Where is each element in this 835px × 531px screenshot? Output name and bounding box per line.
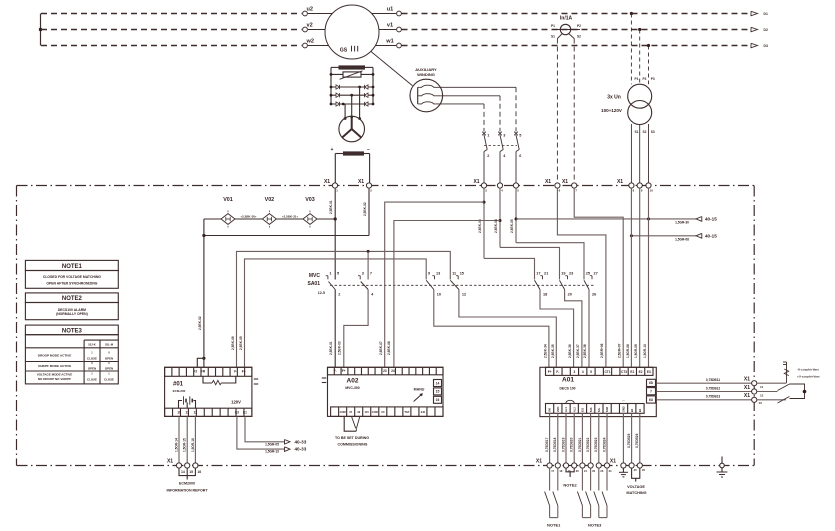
svg-text:0,75DB17: 0,75DB17 <box>545 437 549 452</box>
svg-text:2,5BK-06: 2,5BK-06 <box>231 336 235 350</box>
svg-text:MVC: MVC <box>309 273 321 279</box>
svg-text:ECM-200: ECM-200 <box>173 389 186 393</box>
svg-text:0,75DB23: 0,75DB23 <box>594 437 598 452</box>
svg-text:X1: X1 <box>545 179 551 185</box>
svg-text:VMC: VMC <box>556 406 560 412</box>
svg-text:0,75DB24: 0,75DB24 <box>602 437 606 452</box>
svg-text:X1: X1 <box>610 459 616 465</box>
svg-text:(NORMALLY OPEN): (NORMALLY OPEN) <box>56 312 88 316</box>
svg-text:3: 3 <box>574 370 576 374</box>
svg-text:2,5BK-08: 2,5BK-08 <box>387 341 391 355</box>
svg-text:X1: X1 <box>744 385 750 391</box>
svg-text:A02: A02 <box>347 378 359 385</box>
svg-text:E1: E1 <box>630 370 634 374</box>
svg-text:COM: COM <box>340 410 346 414</box>
svg-text:DROOP MODE ACTIVE: DROOP MODE ACTIVE <box>38 353 72 357</box>
svg-text:2,5BK-03: 2,5BK-03 <box>338 341 342 355</box>
svg-text:VAR/PF MODE ACTIVE: VAR/PF MODE ACTIVE <box>38 364 71 368</box>
svg-text:940: 940 <box>421 410 426 414</box>
svg-text:3: 3 <box>503 134 505 138</box>
svg-text:−: − <box>367 147 370 153</box>
svg-text:E3: E3 <box>647 370 651 374</box>
svg-text:10: 10 <box>177 411 181 415</box>
svg-text:12: 12 <box>462 292 466 296</box>
svg-text:0,75DB21: 0,75DB21 <box>578 437 582 452</box>
svg-text:1,5GR-13: 1,5GR-13 <box>265 450 279 454</box>
svg-text:2,5BK-35: 2,5BK-35 <box>551 344 555 358</box>
svg-text:F+: F+ <box>242 370 246 374</box>
svg-text:52L: 52L <box>597 407 601 412</box>
svg-text:+2,5BK-30+: +2,5BK-30+ <box>240 215 257 219</box>
svg-text:DECS 100: DECS 100 <box>559 387 575 391</box>
svg-text:1,5GR-08: 1,5GR-08 <box>626 344 630 358</box>
svg-text:12: 12 <box>194 411 198 415</box>
svg-text:2,5BK-37: 2,5BK-37 <box>576 344 580 358</box>
svg-text:S1: S1 <box>635 130 639 134</box>
svg-text:12-5: 12-5 <box>318 291 325 295</box>
svg-text:+U·cosphi+Vars: +U·cosphi+Vars <box>797 375 820 379</box>
svg-text:9: 9 <box>428 271 430 275</box>
svg-text:2,5BR+06: 2,5BR+06 <box>600 343 604 358</box>
svg-text:17: 17 <box>536 271 540 275</box>
svg-text:11: 11 <box>760 385 764 389</box>
svg-text:14: 14 <box>181 470 185 474</box>
svg-text:CLOSE: CLOSE <box>104 378 114 382</box>
svg-text:S1: S1 <box>551 35 555 39</box>
svg-text:GND: GND <box>622 406 626 412</box>
svg-text:0,75DB19: 0,75DB19 <box>561 437 565 452</box>
svg-text:F+: F+ <box>548 370 552 374</box>
svg-text:NOTE1: NOTE1 <box>547 523 561 528</box>
svg-text:2,5BR+07: 2,5BR+07 <box>618 343 622 358</box>
svg-text:FR: FR <box>201 370 206 374</box>
svg-text:E2: E2 <box>639 370 643 374</box>
svg-text:3x Un: 3x Un <box>607 95 621 101</box>
svg-text:0,75DB11: 0,75DB11 <box>706 378 720 382</box>
svg-text:11: 11 <box>452 271 456 275</box>
svg-text:X1: X1 <box>358 179 364 185</box>
svg-text:S2: S2 <box>643 130 647 134</box>
svg-text:CLOSE: CLOSE <box>87 356 97 360</box>
svg-text:27: 27 <box>594 271 598 275</box>
svg-text:AL2: AL2 <box>572 407 576 412</box>
svg-text:+: + <box>331 147 334 153</box>
svg-text:1,5GR-10: 1,5GR-10 <box>643 344 647 358</box>
svg-text:u1: u1 <box>387 7 394 13</box>
svg-text:24: 24 <box>391 369 395 373</box>
svg-text:6: 6 <box>519 154 521 158</box>
svg-text:P2: P2 <box>577 24 581 28</box>
svg-text:D2: D2 <box>764 28 768 32</box>
svg-text:1,5GR-30: 1,5GR-30 <box>675 221 689 225</box>
svg-text:v1: v1 <box>387 23 393 29</box>
svg-text:VM: VM <box>548 408 552 412</box>
svg-text:NOTE1: NOTE1 <box>62 264 83 270</box>
svg-text:OPEN: OPEN <box>88 367 96 371</box>
svg-text:F2: F2 <box>194 370 198 374</box>
svg-text:2: 2 <box>338 292 340 296</box>
svg-text:2,5BK-02: 2,5BK-02 <box>198 316 202 330</box>
svg-text:E1: E1 <box>243 411 247 415</box>
svg-text:#01: #01 <box>173 382 184 388</box>
svg-text:V03: V03 <box>305 197 315 203</box>
svg-text:40-33: 40-33 <box>295 439 307 444</box>
svg-text:P3: P3 <box>651 77 655 81</box>
svg-text:ECM2000: ECM2000 <box>179 482 195 486</box>
svg-text:1,5OR-15: 1,5OR-15 <box>183 438 187 452</box>
svg-text:u2: u2 <box>307 6 314 12</box>
svg-text:1,5GR-09: 1,5GR-09 <box>634 344 638 358</box>
svg-text:5: 5 <box>519 134 521 138</box>
svg-text:5: 5 <box>590 370 592 374</box>
svg-text:WINDING: WINDING <box>417 72 435 77</box>
svg-text:6D: 6D <box>649 381 654 385</box>
svg-text:2,5BK-38: 2,5BK-38 <box>583 344 587 358</box>
svg-text:S3: S3 <box>651 130 655 134</box>
svg-text:1,5OR-16: 1,5OR-16 <box>191 438 195 452</box>
svg-text:15: 15 <box>460 271 464 275</box>
svg-text:P1: P1 <box>551 24 555 28</box>
svg-text:2,5BK-03: 2,5BK-03 <box>478 219 482 233</box>
svg-text:52J: 52J <box>581 407 585 412</box>
svg-text:6U: 6U <box>649 398 654 402</box>
svg-text:B3: B3 <box>630 408 634 412</box>
svg-text:20: 20 <box>568 292 572 296</box>
svg-text:23: 23 <box>383 369 387 373</box>
svg-text:1: 1 <box>329 271 331 275</box>
svg-text:120V: 120V <box>231 400 241 405</box>
svg-text:4: 4 <box>582 370 584 374</box>
svg-text:B1: B1 <box>638 408 642 412</box>
svg-text:11: 11 <box>186 411 190 415</box>
svg-text:w1: w1 <box>385 39 393 45</box>
svg-text:VOLTAGE: VOLTAGE <box>627 485 645 489</box>
svg-text:0,75DB12: 0,75DB12 <box>706 386 721 390</box>
svg-text:TAP: TAP <box>404 410 409 414</box>
svg-text:w2: w2 <box>306 38 314 44</box>
svg-text:CT3: CT3 <box>621 370 627 374</box>
svg-text:F+: F+ <box>342 369 346 373</box>
svg-text:25: 25 <box>586 271 590 275</box>
svg-text:NOTE3: NOTE3 <box>588 523 602 528</box>
svg-text:2,5BK-05: 2,5BK-05 <box>510 219 514 233</box>
svg-text:14: 14 <box>436 381 440 385</box>
svg-text:F-: F- <box>234 370 237 374</box>
svg-text:V01: V01 <box>223 197 233 203</box>
svg-text:P2: P2 <box>643 77 647 81</box>
svg-text:CLOSED FOR VOLTAGE MATCHING: CLOSED FOR VOLTAGE MATCHING <box>43 275 101 279</box>
svg-text:GS: GS <box>340 48 348 54</box>
svg-text:D3: D3 <box>764 44 768 48</box>
svg-text:19: 19 <box>561 271 565 275</box>
svg-text:COM: COM <box>372 410 378 414</box>
svg-text:MVC-300: MVC-300 <box>345 386 359 390</box>
svg-text:12: 12 <box>760 393 764 397</box>
svg-text:X1: X1 <box>536 459 542 465</box>
svg-text:0,75DB13: 0,75DB13 <box>706 395 721 399</box>
svg-text:D1: D1 <box>764 12 768 16</box>
svg-text:0,75DB25: 0,75DB25 <box>627 433 631 448</box>
svg-text:X1: X1 <box>562 179 568 185</box>
svg-text:16: 16 <box>197 470 201 474</box>
svg-text:15: 15 <box>189 470 193 474</box>
svg-text:10: 10 <box>437 292 441 296</box>
svg-text:OPEN: OPEN <box>105 356 113 360</box>
svg-text:..: .. <box>622 397 624 402</box>
svg-text:2,5BK-09: 2,5BK-09 <box>239 336 243 350</box>
svg-text:0,75DB26: 0,75DB26 <box>635 433 639 448</box>
svg-text:52M: 52M <box>605 407 609 412</box>
svg-text:26: 26 <box>592 292 596 296</box>
svg-text:CT1: CT1 <box>605 370 611 374</box>
svg-text:2,5BK-07: 2,5BK-07 <box>379 341 383 355</box>
svg-text:1,5GR-08: 1,5GR-08 <box>675 237 689 241</box>
svg-text:TO BE SET DURING: TO BE SET DURING <box>335 436 369 440</box>
svg-text:100÷120V: 100÷120V <box>601 108 623 113</box>
svg-text:SA01: SA01 <box>307 281 320 287</box>
svg-text:F-: F- <box>334 369 337 373</box>
svg-text:E3: E3 <box>235 411 239 415</box>
svg-text:10: 10 <box>650 189 654 193</box>
svg-text:In/1A: In/1A <box>560 16 573 22</box>
svg-text:15: 15 <box>436 390 440 394</box>
svg-text:X1: X1 <box>324 179 330 185</box>
svg-text:2,5BK-36: 2,5BK-36 <box>568 344 572 358</box>
svg-text:16: 16 <box>436 398 440 402</box>
svg-text:1: 1 <box>487 134 489 138</box>
svg-text:COMMISSIONING: COMMISSIONING <box>338 443 368 447</box>
svg-text:OPEN: OPEN <box>105 367 113 371</box>
svg-text:X1: X1 <box>473 179 479 185</box>
svg-text:-U·cosphi+Vars: -U·cosphi+Vars <box>797 368 819 372</box>
svg-text:NOTE2: NOTE2 <box>62 296 83 302</box>
svg-text:2,5BK-34: 2,5BK-34 <box>544 344 548 358</box>
svg-text:NOTE2: NOTE2 <box>563 483 577 488</box>
svg-text:1,5OR-14: 1,5OR-14 <box>174 438 178 452</box>
svg-text:2,5BK-02: 2,5BK-02 <box>363 202 367 216</box>
svg-text:2,5BK-01: 2,5BK-01 <box>329 341 333 355</box>
svg-text:X1: X1 <box>744 377 750 383</box>
svg-text:U0: U0 <box>381 410 385 414</box>
svg-text:23: 23 <box>569 271 573 275</box>
svg-text:21: 21 <box>544 271 548 275</box>
svg-text:X1: X1 <box>167 459 173 465</box>
svg-text:7: 7 <box>370 271 372 275</box>
svg-text:v2: v2 <box>307 22 313 28</box>
svg-text:2: 2 <box>487 154 489 158</box>
svg-text:2,5BK-04: 2,5BK-04 <box>494 219 498 233</box>
svg-text:VOLTAGE MODE ACTIVE: VOLTAGE MODE ACTIVE <box>37 373 73 377</box>
svg-text:S2: S2 <box>577 35 581 39</box>
svg-text:A01: A01 <box>562 377 574 384</box>
svg-text:115: 115 <box>365 410 370 414</box>
svg-text:5: 5 <box>337 271 339 275</box>
svg-text:0,75DB20: 0,75DB20 <box>570 437 574 452</box>
svg-text:7: 7 <box>650 390 652 394</box>
svg-text:P1: P1 <box>635 77 639 81</box>
svg-text:0,75DB18: 0,75DB18 <box>553 437 557 452</box>
svg-text:OPEN AFTER SYNCHRONIZING: OPEN AFTER SYNCHRONIZING <box>46 281 97 285</box>
svg-text:MANU: MANU <box>414 388 425 392</box>
svg-text:MATCHING: MATCHING <box>626 491 646 495</box>
svg-text:3: 3 <box>362 271 364 275</box>
svg-text:F-: F- <box>556 370 559 374</box>
svg-text:52K: 52K <box>589 407 593 412</box>
svg-text:40-15: 40-15 <box>705 234 717 239</box>
svg-text:CLOSE: CLOSE <box>87 378 97 382</box>
svg-text:2,5BK-01: 2,5BK-01 <box>329 200 333 214</box>
svg-text:40-15: 40-15 <box>705 217 717 222</box>
svg-text:52L-M: 52L-M <box>105 343 114 347</box>
svg-text:13: 13 <box>759 401 763 405</box>
svg-text:52J-K: 52J-K <box>88 343 96 347</box>
svg-text:0,75DB22: 0,75DB22 <box>586 437 590 452</box>
svg-text:+2,5BK-31+: +2,5BK-31+ <box>282 215 299 219</box>
svg-text:13: 13 <box>436 271 440 275</box>
svg-text:18: 18 <box>543 292 547 296</box>
svg-text:NOTE3: NOTE3 <box>62 328 83 334</box>
svg-text:X1: X1 <box>744 393 750 399</box>
svg-text:AL1: AL1 <box>564 407 568 412</box>
svg-text:INFORMATION REPORT: INFORMATION REPORT <box>166 489 208 493</box>
svg-text:V02: V02 <box>265 197 275 203</box>
svg-text:NO DROOP NO VAR/PF: NO DROOP NO VAR/PF <box>38 377 71 381</box>
svg-text:X1: X1 <box>617 179 623 185</box>
svg-text:1,5GR-05: 1,5GR-05 <box>265 442 279 446</box>
svg-text:40-33: 40-33 <box>295 447 307 452</box>
